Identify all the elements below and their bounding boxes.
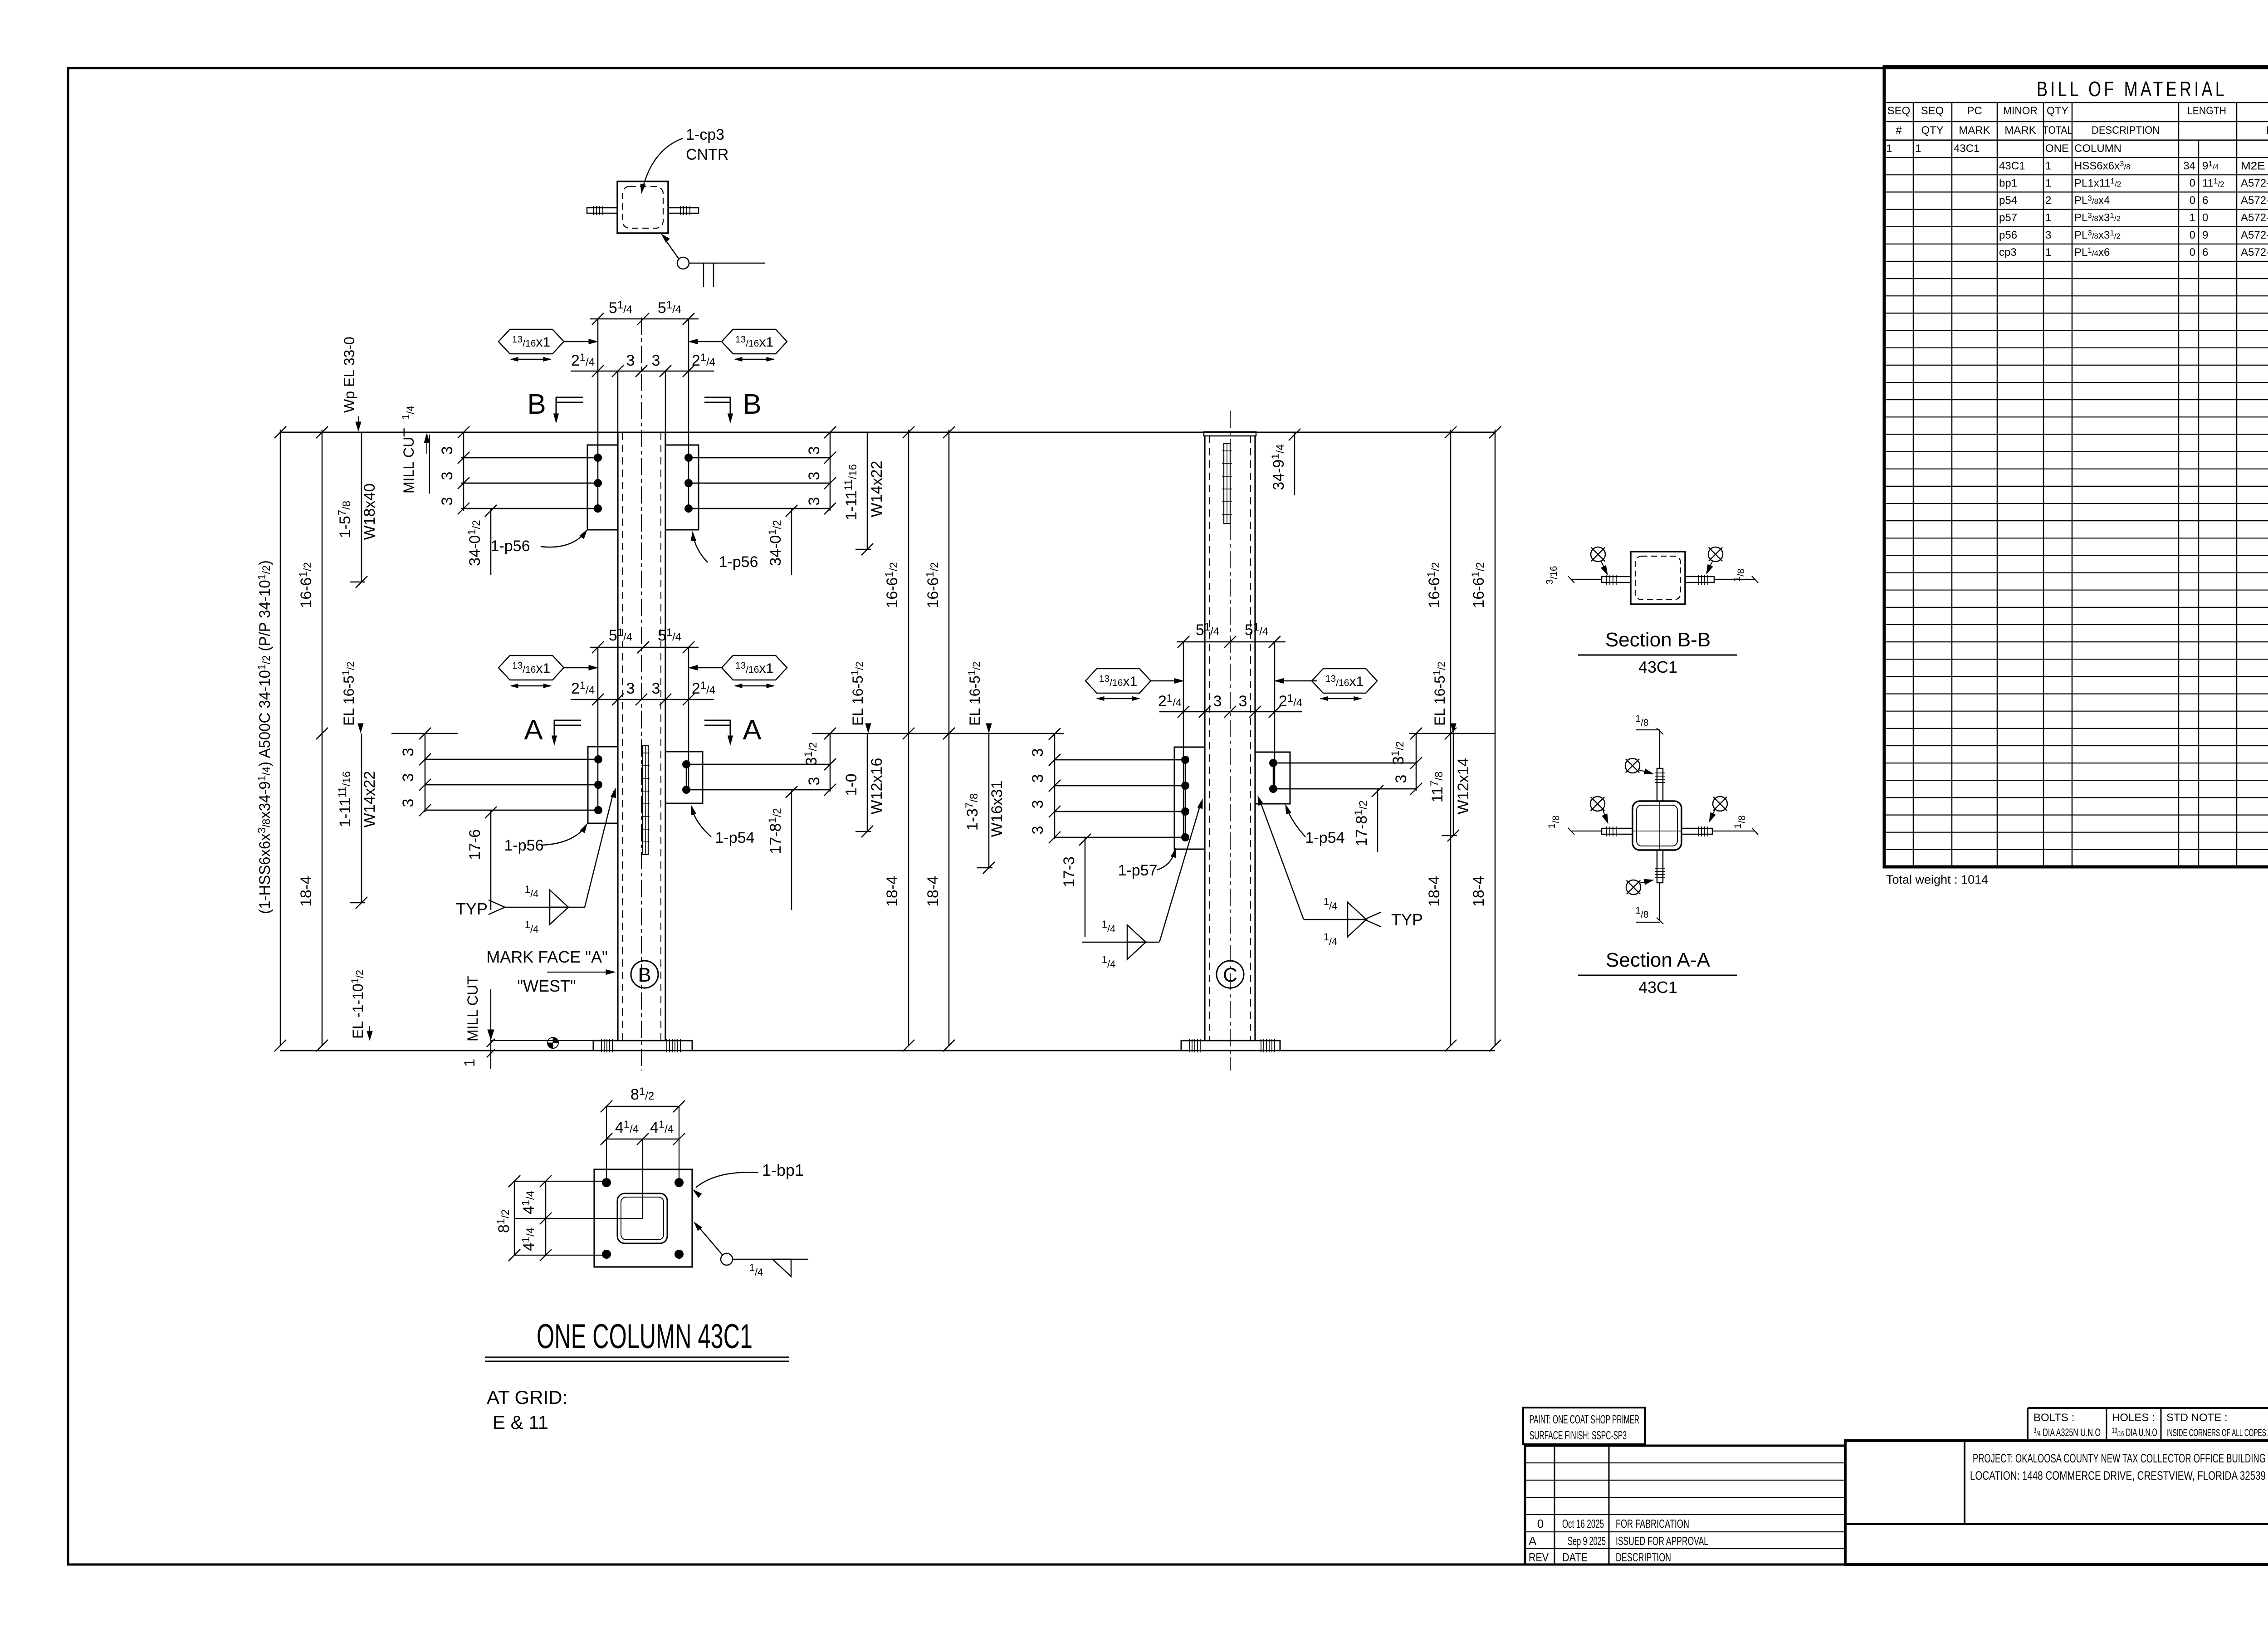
- svg-text:MILL CUT: MILL CUT: [401, 428, 417, 494]
- svg-text:(1-HSS6x6x3/8x34-91/4) A500C: (1-HSS6x6x3/8x34-91/4) A500C 34-101/2 (P…: [256, 560, 274, 914]
- svg-text:QTY: QTY: [2047, 105, 2068, 117]
- svg-text:3: 3: [439, 446, 456, 455]
- svg-text:3: 3: [806, 777, 823, 786]
- svg-text:3: 3: [439, 472, 456, 480]
- svg-text:STD NOTE :: STD NOTE :: [2166, 1412, 2228, 1424]
- svg-text:C: C: [1223, 964, 1237, 986]
- svg-text:LOCATION: 1448 COMMERCE DRIVE,: LOCATION: 1448 COMMERCE DRIVE, CRESTVIEW…: [1970, 1469, 2266, 1482]
- svg-text:SEQ: SEQ: [1887, 105, 1911, 117]
- svg-text:1-0: 1-0: [843, 773, 860, 796]
- svg-text:2: 2: [2045, 195, 2051, 207]
- svg-text:AT GRID:: AT GRID:: [487, 1387, 567, 1408]
- svg-text:MILL CUT: MILL CUT: [464, 976, 481, 1041]
- svg-text:W14x22: W14x22: [868, 461, 885, 518]
- svg-text:MINOR: MINOR: [2003, 105, 2038, 117]
- svg-text:QTY: QTY: [1921, 124, 1943, 137]
- svg-text:MARK FACE "A": MARK FACE "A": [486, 948, 608, 966]
- svg-text:1-bp1: 1-bp1: [762, 1161, 804, 1179]
- svg-text:SEQ: SEQ: [1921, 105, 1944, 117]
- svg-text:Oct 16 2025: Oct 16 2025: [1562, 1517, 1604, 1530]
- svg-text:1: 1: [1886, 142, 1892, 155]
- svg-text:BILL OF MATERIAL: BILL OF MATERIAL: [2037, 77, 2227, 101]
- svg-text:1: 1: [2045, 212, 2051, 224]
- svg-text:Sep 9 2025: Sep 9 2025: [1568, 1534, 1606, 1548]
- svg-text:A572-50: A572-50: [2241, 246, 2268, 259]
- svg-text:FOR FABRICATION: FOR FABRICATION: [1616, 1517, 1689, 1530]
- svg-text:A572-50: A572-50: [2241, 177, 2268, 189]
- svg-text:18-4: 18-4: [1426, 876, 1443, 907]
- svg-text:3: 3: [1029, 800, 1046, 809]
- svg-text:COLUMN: COLUMN: [2074, 142, 2121, 155]
- svg-text:1-p54: 1-p54: [715, 829, 755, 846]
- svg-text:3: 3: [400, 773, 417, 782]
- svg-text:#: #: [1896, 124, 1902, 137]
- svg-text:bp1: bp1: [1999, 177, 2017, 189]
- svg-text:1-p56: 1-p56: [504, 837, 544, 854]
- svg-text:B: B: [527, 389, 546, 420]
- svg-text:INSIDE CORNERS OF ALL COPES AN: INSIDE CORNERS OF ALL COPES AND CUTS TO …: [2166, 1427, 2268, 1438]
- svg-text:1: 1: [2045, 160, 2051, 172]
- svg-text:ONE: ONE: [2045, 142, 2069, 155]
- svg-text:3: 3: [1029, 826, 1046, 835]
- svg-text:BOLTS :: BOLTS :: [2033, 1412, 2074, 1424]
- svg-text:TOTAL: TOTAL: [2043, 124, 2072, 137]
- svg-text:p54: p54: [1999, 195, 2017, 207]
- svg-text:A: A: [743, 714, 762, 746]
- svg-text:43C1: 43C1: [1638, 978, 1677, 997]
- svg-text:PC: PC: [1967, 105, 1982, 117]
- svg-text:MARK: MARK: [1959, 124, 1990, 137]
- svg-text:"WEST": "WEST": [517, 977, 576, 995]
- svg-text:E & 11: E & 11: [493, 1412, 548, 1433]
- svg-text:DATE: DATE: [1562, 1550, 1588, 1564]
- svg-text:W16x31: W16x31: [988, 781, 1006, 837]
- svg-text:PROJECT: OKALOOSA COUNTY NEW T: PROJECT: OKALOOSA COUNTY NEW TAX COLLECT…: [1973, 1452, 2266, 1465]
- svg-text:TYP: TYP: [1391, 910, 1423, 929]
- svg-text:1-p56: 1-p56: [491, 538, 530, 555]
- svg-text:A: A: [1529, 1534, 1537, 1548]
- svg-text:3: 3: [1239, 693, 1247, 710]
- svg-text:W18x40: W18x40: [361, 484, 378, 540]
- svg-text:MARK: MARK: [2004, 124, 2036, 137]
- svg-text:Wp EL 33-0: Wp EL 33-0: [341, 337, 357, 413]
- svg-text:1: 1: [2045, 246, 2051, 259]
- svg-text:43C1: 43C1: [1638, 658, 1677, 676]
- svg-text:0: 0: [2190, 229, 2195, 241]
- svg-text:3: 3: [806, 446, 823, 455]
- svg-text:18-4: 18-4: [1470, 876, 1487, 907]
- svg-text:0: 0: [2202, 212, 2208, 224]
- svg-text:1-p57: 1-p57: [1118, 862, 1158, 879]
- svg-text:1: 1: [461, 1059, 478, 1067]
- svg-text:0: 0: [1537, 1517, 1544, 1530]
- svg-text:PAINT: ONE COAT SHOP PRIMER: PAINT: ONE COAT SHOP PRIMER: [1530, 1413, 1639, 1426]
- svg-text:3: 3: [652, 352, 660, 369]
- svg-text:3: 3: [400, 748, 417, 757]
- svg-text:1: 1: [1915, 142, 1921, 155]
- svg-text:17-3: 17-3: [1061, 856, 1078, 887]
- svg-text:43C1: 43C1: [1954, 142, 1980, 155]
- svg-text:B: B: [638, 964, 651, 986]
- svg-text:3: 3: [1029, 774, 1046, 783]
- svg-text:34: 34: [2183, 160, 2195, 172]
- svg-text:6: 6: [2202, 195, 2208, 207]
- svg-text:18-4: 18-4: [884, 876, 901, 907]
- svg-text:18-4: 18-4: [924, 876, 942, 907]
- svg-text:TYP: TYP: [456, 900, 488, 918]
- svg-text:Section B-B: Section B-B: [1605, 629, 1711, 651]
- svg-text:6: 6: [2202, 246, 2208, 259]
- svg-text:p57: p57: [1999, 212, 2017, 224]
- svg-text:ISSUED FOR APPROVAL: ISSUED FOR APPROVAL: [1616, 1534, 1708, 1548]
- svg-text:3: 3: [400, 799, 417, 807]
- svg-text:9: 9: [2202, 229, 2208, 241]
- svg-text:M2E A500C: M2E A500C: [2241, 160, 2268, 172]
- svg-text:B: B: [743, 389, 761, 420]
- svg-text:0: 0: [2190, 195, 2195, 207]
- svg-text:REMARKS: REMARKS: [2266, 124, 2268, 137]
- svg-text:REV: REV: [1529, 1550, 1549, 1564]
- svg-text:A: A: [524, 714, 543, 746]
- svg-text:cp3: cp3: [1999, 246, 2017, 259]
- svg-text:43C1: 43C1: [1999, 160, 2025, 172]
- svg-text:DESCRIPTION: DESCRIPTION: [1616, 1550, 1671, 1564]
- svg-text:0: 0: [2190, 177, 2195, 189]
- svg-text:0: 0: [2190, 246, 2195, 259]
- svg-text:A572-50: A572-50: [2241, 229, 2268, 241]
- svg-text:CNTR: CNTR: [686, 146, 728, 163]
- svg-text:3: 3: [626, 680, 635, 697]
- svg-text:1-cp3: 1-cp3: [686, 126, 724, 143]
- svg-text:1: 1: [2190, 212, 2195, 224]
- svg-text:DESCRIPTION: DESCRIPTION: [2092, 124, 2160, 137]
- svg-text:ONE COLUMN 43C1: ONE COLUMN 43C1: [537, 1317, 753, 1356]
- svg-text:Total weight : 1014: Total weight : 1014: [1886, 873, 1988, 886]
- svg-text:W12x16: W12x16: [868, 758, 885, 815]
- svg-text:3: 3: [806, 472, 823, 480]
- svg-text:W14x22: W14x22: [361, 771, 378, 828]
- svg-text:HOLES :: HOLES :: [2112, 1412, 2155, 1424]
- svg-text:3: 3: [2045, 229, 2051, 241]
- svg-text:3/4 DIA A325N U.N.O: 3/4 DIA A325N U.N.O: [2033, 1426, 2101, 1439]
- svg-text:W12x14: W12x14: [1455, 758, 1472, 815]
- svg-text:17-6: 17-6: [466, 829, 484, 860]
- svg-text:3: 3: [439, 497, 456, 506]
- svg-text:LENGTH: LENGTH: [2187, 105, 2226, 117]
- svg-text:3: 3: [652, 680, 660, 697]
- svg-text:3: 3: [1213, 693, 1222, 710]
- svg-text:3: 3: [1393, 775, 1410, 783]
- svg-text:3: 3: [1029, 748, 1046, 757]
- svg-text:A572-50: A572-50: [2241, 195, 2268, 207]
- svg-text:Section A-A: Section A-A: [1606, 949, 1711, 971]
- svg-text:3: 3: [806, 497, 823, 506]
- svg-text:1-p54: 1-p54: [1305, 829, 1345, 846]
- svg-text:SURFACE FINISH: SSPC-SP3: SURFACE FINISH: SSPC-SP3: [1530, 1428, 1627, 1442]
- svg-text:1-p56: 1-p56: [719, 553, 758, 571]
- svg-text:A572-50: A572-50: [2241, 212, 2268, 224]
- svg-text:1: 1: [2045, 177, 2051, 189]
- svg-text:3: 3: [626, 352, 635, 369]
- svg-text:18-4: 18-4: [298, 876, 315, 907]
- svg-text:p56: p56: [1999, 229, 2017, 241]
